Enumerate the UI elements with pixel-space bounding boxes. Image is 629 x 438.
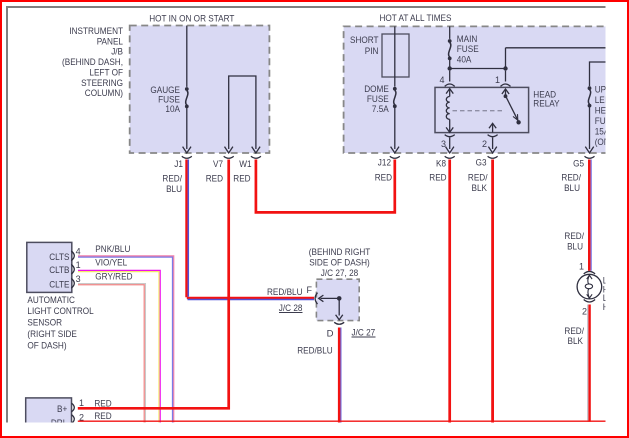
svg-text:10A: 10A: [165, 104, 180, 115]
svg-text:BLU: BLU: [564, 183, 580, 194]
svg-text:K8: K8: [436, 158, 446, 169]
svg-text:PIN: PIN: [365, 46, 379, 57]
svg-text:(ONE: (ONE: [595, 137, 616, 148]
svg-text:HEAD: HEAD: [595, 106, 618, 117]
svg-text:1: 1: [579, 262, 584, 272]
svg-text:J/C 27, 28: J/C 27, 28: [321, 268, 358, 279]
svg-text:2: 2: [79, 412, 84, 422]
svg-text:HI: HI: [603, 302, 611, 313]
svg-text:15A: 15A: [595, 127, 610, 138]
svg-text:(RIGHT SIDE: (RIGHT SIDE: [27, 329, 77, 340]
svg-text:BLU: BLU: [166, 184, 182, 195]
svg-text:SHORT: SHORT: [350, 35, 379, 46]
svg-text:RED: RED: [233, 173, 250, 184]
svg-text:RED: RED: [94, 398, 111, 409]
svg-text:HOT AT ALL TIMES: HOT AT ALL TIMES: [380, 13, 452, 24]
svg-text:RED/: RED/: [564, 326, 584, 337]
svg-text:RED/: RED/: [162, 173, 182, 184]
svg-text:4: 4: [76, 246, 81, 256]
svg-text:3: 3: [441, 139, 446, 149]
svg-text:D: D: [327, 329, 334, 340]
svg-text:RED/: RED/: [561, 173, 581, 184]
svg-text:BLK: BLK: [568, 336, 584, 347]
svg-text:GRY/RED: GRY/RED: [95, 271, 132, 282]
svg-text:LEFT: LEFT: [595, 95, 615, 106]
svg-text:RED: RED: [94, 411, 111, 422]
svg-text:LEFT: LEFT: [603, 276, 623, 287]
svg-text:RED/BLU: RED/BLU: [267, 287, 303, 298]
svg-text:J12: J12: [378, 158, 391, 169]
svg-text:HOT IN ON OR START: HOT IN ON OR START: [149, 13, 234, 24]
svg-text:G5: G5: [573, 158, 584, 169]
svg-text:OF DASH): OF DASH): [27, 340, 66, 351]
svg-text:BLK: BLK: [472, 183, 488, 194]
svg-text:RED: RED: [429, 173, 446, 184]
svg-text:RED: RED: [375, 173, 392, 184]
svg-text:CLTB: CLTB: [49, 265, 69, 276]
svg-text:2: 2: [482, 139, 487, 149]
svg-text:1: 1: [79, 398, 84, 408]
svg-text:2: 2: [582, 307, 587, 317]
svg-text:CLTS: CLTS: [49, 252, 69, 263]
svg-text:RED/: RED/: [468, 173, 488, 184]
svg-text:W1: W1: [239, 159, 251, 170]
svg-text:3: 3: [76, 274, 81, 284]
svg-text:RELAY: RELAY: [533, 99, 560, 110]
svg-text:LIGHT CONTROL: LIGHT CONTROL: [27, 306, 93, 317]
svg-text:J/B: J/B: [111, 47, 123, 58]
svg-text:CLTE: CLTE: [49, 279, 69, 290]
svg-text:RED/: RED/: [564, 231, 584, 242]
svg-text:FUSE: FUSE: [595, 116, 617, 127]
svg-text:RED: RED: [206, 173, 223, 184]
svg-text:J1: J1: [174, 159, 183, 170]
svg-text:AUTOMATIC: AUTOMATIC: [27, 295, 75, 306]
svg-text:LEFT OF: LEFT OF: [89, 67, 123, 78]
svg-text:UPPER: UPPER: [595, 84, 623, 95]
svg-text:4: 4: [439, 75, 444, 85]
svg-text:COLUMN): COLUMN): [85, 88, 123, 99]
svg-text:BLU: BLU: [567, 242, 583, 253]
svg-text:F: F: [307, 285, 313, 295]
svg-text:1: 1: [495, 75, 500, 85]
svg-text:7.5A: 7.5A: [372, 104, 389, 115]
svg-text:INSTRUMENT: INSTRUMENT: [69, 26, 123, 37]
svg-text:VIO/YEL: VIO/YEL: [95, 258, 127, 269]
svg-text:RED/BLU: RED/BLU: [297, 345, 333, 356]
svg-text:V7: V7: [213, 159, 223, 170]
svg-text:B+: B+: [57, 404, 68, 415]
svg-text:SENSOR: SENSOR: [27, 318, 62, 329]
svg-text:40A: 40A: [457, 55, 472, 66]
svg-text:FUSE: FUSE: [457, 44, 479, 55]
svg-text:HEAD: HEAD: [603, 284, 626, 295]
svg-text:1: 1: [76, 260, 81, 270]
svg-text:G3: G3: [476, 158, 487, 169]
svg-text:LIGHT: LIGHT: [603, 293, 627, 304]
svg-text:DRL: DRL: [51, 418, 67, 429]
svg-text:PNK/BLU: PNK/BLU: [95, 244, 130, 255]
